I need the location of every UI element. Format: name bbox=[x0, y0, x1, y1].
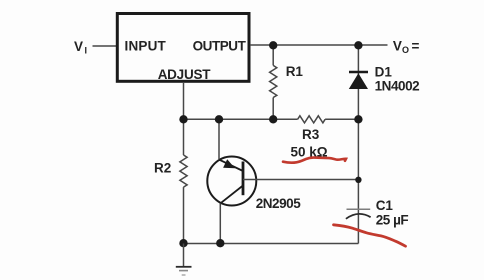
junction dot collector node bbox=[216, 239, 224, 247]
svg-text:R2: R2 bbox=[154, 161, 171, 176]
resistor R2 bbox=[154, 119, 187, 243]
ground bbox=[176, 244, 192, 276]
wire mid rail right bbox=[325, 118, 358, 120]
svg-text:R1: R1 bbox=[286, 64, 304, 79]
emitter arrow bbox=[223, 159, 235, 168]
base bar bbox=[242, 162, 245, 196]
junction dot R3/D1 bbox=[354, 115, 362, 123]
svg-text:I: I bbox=[85, 46, 88, 56]
capacitor C1 bbox=[346, 198, 409, 228]
junction dot emitter node bbox=[215, 115, 223, 123]
regulator U1 (INPUT/OUTPUT/ADJUST) bbox=[117, 14, 249, 82]
junction dot output/D1 bbox=[354, 41, 362, 49]
svg-text:V: V bbox=[393, 39, 402, 54]
collector diagonal bbox=[220, 186, 243, 204]
wire VI to regulator input bbox=[93, 45, 117, 47]
red annotation under 50 kOhm bbox=[283, 158, 346, 163]
resistor R1 bbox=[270, 45, 304, 119]
junction dot adjust node bbox=[179, 115, 187, 123]
wire adjust pin bbox=[183, 82, 185, 119]
wire mid rail left bbox=[184, 118, 298, 120]
svg-text:D1: D1 bbox=[375, 64, 393, 79]
wire output rail bbox=[250, 44, 388, 46]
svg-text:1N4002: 1N4002 bbox=[375, 78, 420, 93]
transistor Q1 2N2905 bbox=[207, 119, 301, 243]
svg-text:=: = bbox=[412, 39, 420, 54]
svg-text:C1: C1 bbox=[376, 198, 394, 213]
node VO label bbox=[393, 39, 420, 55]
diode D1 bbox=[349, 45, 419, 119]
svg-text:INPUT: INPUT bbox=[125, 39, 167, 54]
svg-text:25 µF: 25 µF bbox=[376, 213, 409, 228]
wire bottom rail bbox=[184, 243, 359, 245]
emitter diagonal bbox=[219, 160, 243, 171]
svg-text:O: O bbox=[402, 45, 409, 55]
junction dot base node bbox=[355, 177, 361, 183]
svg-text:2N2905: 2N2905 bbox=[256, 196, 302, 211]
junction dot output/R1 bbox=[269, 41, 277, 49]
svg-text:R3: R3 bbox=[302, 127, 320, 142]
junction dot ground node bbox=[179, 239, 187, 247]
collector wire bbox=[219, 203, 221, 243]
node VI label bbox=[74, 39, 87, 56]
svg-text:OUTPUT: OUTPUT bbox=[193, 39, 247, 54]
wire D1 to C1 bbox=[357, 119, 359, 243]
junction dot R1 bottom bbox=[269, 115, 277, 123]
svg-text:V: V bbox=[74, 39, 83, 54]
svg-text:ADJUST: ADJUST bbox=[158, 67, 212, 82]
wire base lead bbox=[243, 179, 358, 181]
red annotation through 25 uF bbox=[334, 225, 406, 246]
resistor R3 bbox=[291, 116, 328, 160]
emitter wire from node bbox=[218, 119, 220, 160]
